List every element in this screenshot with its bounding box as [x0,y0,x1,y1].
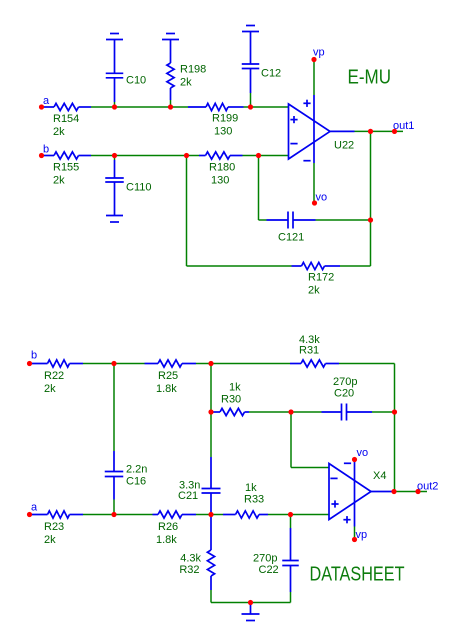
svg-text:R154: R154 [53,113,79,125]
svg-text:C110: C110 [126,182,151,194]
svg-text:2k: 2k [44,534,56,546]
svg-text:R25: R25 [158,370,178,382]
svg-text:270p: 270p [333,376,357,388]
svg-text:E-MU: E-MU [348,67,392,89]
svg-text:2k: 2k [53,175,65,187]
svg-text:X4: X4 [373,470,386,482]
svg-text:130: 130 [211,175,229,187]
svg-text:b: b [31,350,37,362]
svg-text:1.8k: 1.8k [156,534,177,546]
svg-text:2k: 2k [53,126,65,138]
svg-text:U22: U22 [334,140,354,152]
svg-text:vp: vp [356,529,368,541]
svg-text:2k: 2k [44,383,56,395]
svg-text:R155: R155 [53,162,79,174]
svg-text:R198: R198 [180,64,206,76]
svg-text:R32: R32 [179,564,199,576]
svg-text:C12: C12 [261,68,281,80]
svg-text:b: b [43,144,49,156]
svg-text:vo: vo [316,192,328,204]
svg-text:DATASHEET: DATASHEET [310,564,405,586]
svg-text:out2: out2 [417,481,438,493]
svg-text:C21: C21 [178,490,198,502]
svg-text:R30: R30 [221,394,241,406]
svg-text:a: a [31,502,38,514]
svg-text:2.2n: 2.2n [126,464,147,476]
svg-text:vo: vo [357,447,369,459]
svg-text:1k: 1k [229,382,241,394]
svg-text:1.8k: 1.8k [156,383,177,395]
svg-text:130: 130 [214,126,232,138]
svg-text:a: a [43,95,50,107]
svg-text:4.3k: 4.3k [180,553,201,565]
svg-text:2k: 2k [180,77,192,89]
svg-text:270p: 270p [253,553,277,565]
svg-text:out1: out1 [393,120,414,132]
svg-text:R22: R22 [44,370,64,382]
svg-text:R31: R31 [299,345,319,357]
svg-text:C16: C16 [126,476,146,488]
svg-text:R26: R26 [158,521,178,533]
svg-text:C10: C10 [126,75,146,87]
svg-text:C20: C20 [334,388,354,400]
svg-text:R23: R23 [44,521,64,533]
svg-text:R180: R180 [209,162,235,174]
svg-text:1k: 1k [245,482,257,494]
svg-text:R33: R33 [244,494,264,506]
svg-text:vp: vp [313,47,325,59]
svg-text:2k: 2k [308,285,320,297]
svg-text:R172: R172 [308,272,334,284]
svg-text:C121: C121 [278,232,304,244]
svg-text:C22: C22 [259,564,279,576]
svg-text:R199: R199 [212,113,238,125]
